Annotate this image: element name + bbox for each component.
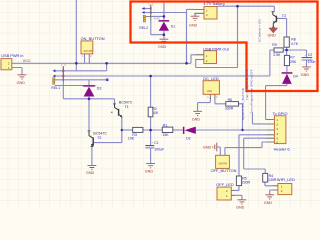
connector WIFI_LED xyxy=(278,184,292,195)
svg-text:GND: GND xyxy=(192,118,201,122)
pin stubs OFF_LED xyxy=(231,190,235,195)
svg-text:GND: GND xyxy=(145,170,154,174)
wire R2 top lead xyxy=(150,76,152,108)
ground battery xyxy=(191,16,200,20)
transistor T1 xyxy=(111,104,122,118)
wire REL2 arrow stub y8.5 xyxy=(144,8,151,10)
wire VCC rail from USB PWR in pin to riser xyxy=(12,62,191,64)
wire C1 top lead xyxy=(150,130,152,146)
wire D3 bottom stub to junction xyxy=(88,97,90,99)
connector OFF_BUTTON xyxy=(216,155,230,168)
wire battery top corner to feed xyxy=(218,5,238,7)
connector USB PWR in xyxy=(1,59,12,70)
wire R9 right lead to base node xyxy=(283,49,286,51)
diode D3 xyxy=(83,85,95,96)
svg-text:GND: GND xyxy=(268,34,277,38)
junction D3/T2 collector xyxy=(88,98,91,101)
wire riser x106.6 from VCC rail to arrow net xyxy=(106,63,108,71)
resistor R3 xyxy=(133,127,143,132)
transistor T2 xyxy=(88,131,94,147)
svg-text:100uF: 100uF xyxy=(154,148,164,152)
svg-text:10K: 10K xyxy=(128,136,135,140)
wire WIFI_LED pin2 to GND xyxy=(270,190,273,195)
svg-text:GND: GND xyxy=(86,171,95,175)
pin stubs USB PWR Out xyxy=(196,55,204,60)
wire GPIO pin5 with drop to R4 xyxy=(244,138,266,173)
svg-text:GND: GND xyxy=(301,73,310,77)
relay REL2 xyxy=(143,5,151,23)
ground OFF_LED xyxy=(238,200,247,204)
capacitor C1 xyxy=(145,146,154,148)
junction collector feed xyxy=(236,5,239,8)
wire D3 top stub xyxy=(88,80,90,85)
svg-text:330R: 330R xyxy=(225,106,234,110)
selection frame xyxy=(131,2,318,92)
svg-text:100n: 100n xyxy=(308,60,316,64)
connector DC_LED xyxy=(203,81,219,95)
wire T1 emitter branch to R3 xyxy=(122,129,133,131)
svg-text:signal to OFF_BUTTON: signal to OFF_BUTTON xyxy=(241,88,245,120)
connector 4.7V Battery xyxy=(204,7,217,20)
wire ON_BUTTON left pin xyxy=(84,54,86,63)
svg-text:R6: R6 xyxy=(228,98,233,102)
wire base node to C2 xyxy=(287,50,307,57)
wire USB PWR in pin1 to GND xyxy=(12,68,22,75)
pin stubs DC_LED xyxy=(210,94,215,99)
svg-text:10K: 10K xyxy=(152,111,159,115)
diode D2 xyxy=(183,127,196,134)
svg-text:GND: GND xyxy=(236,206,245,209)
wire DC_LED pin1 to GND xyxy=(198,98,211,111)
svg-text:OFF_LED: OFF_LED xyxy=(216,182,234,187)
wire REL1 pad stub y79.8 xyxy=(55,79,106,81)
connector To GPIO header xyxy=(274,116,286,144)
net arrow REL2 a xyxy=(142,7,145,10)
diode D1 xyxy=(159,20,170,31)
svg-text:OFF_BUTTON: OFF_BUTTON xyxy=(211,168,237,173)
svg-text:GND: GND xyxy=(17,81,26,85)
wire R7 top lead xyxy=(286,50,288,55)
resistor R4 xyxy=(263,173,268,182)
pin stub battery pin2 GND stem xyxy=(194,13,196,16)
ground T3 emitter (triangle) xyxy=(269,28,277,33)
transistor T3 xyxy=(271,12,277,28)
svg-text:USB PWR in: USB PWR in xyxy=(1,53,23,58)
resistor R7 xyxy=(284,55,289,65)
svg-text:D4: D4 xyxy=(293,74,298,78)
wire R4 bottom to WIFI_LED pin1 xyxy=(265,182,273,186)
connector USB PWR Out xyxy=(204,51,217,64)
ground sideways OFF_BUTTON xyxy=(213,143,217,152)
junction row/R2/C1 xyxy=(149,129,152,132)
ground T2 emitter xyxy=(88,165,97,169)
svg-text:REL1: REL1 xyxy=(51,86,60,90)
svg-text:Turn on signal to GPIO: Turn on signal to GPIO xyxy=(245,69,249,100)
svg-text:R1: R1 xyxy=(163,123,168,127)
svg-text:Header 6: Header 6 xyxy=(274,147,290,152)
ground C2 xyxy=(302,67,311,71)
wire C1 bottom lead to ground xyxy=(150,148,152,164)
wire D2 to GPIO pin3 xyxy=(196,129,266,131)
svg-text:T2: T2 xyxy=(97,136,101,140)
pin stubs battery xyxy=(195,9,205,13)
svg-text:C2: C2 xyxy=(308,53,313,57)
svg-text:2.5K: 2.5K xyxy=(273,53,281,57)
junction D1 bottom xyxy=(163,33,166,36)
wire R7 bottom to D4 xyxy=(286,66,288,73)
wire R1 to D2 xyxy=(173,129,183,131)
svg-text:4.7V Battery: 4.7V Battery xyxy=(203,1,224,6)
resistor R9 xyxy=(274,48,283,52)
svg-text:SW-PB: SW-PB xyxy=(83,49,92,53)
ground USB PWR in xyxy=(18,75,27,79)
net arrow REL1 b xyxy=(53,75,56,78)
ground D1 xyxy=(160,39,169,43)
svg-text:4148: 4148 xyxy=(154,16,160,20)
svg-text:GND: GND xyxy=(264,201,273,205)
wire T2 emitter to GND xyxy=(91,147,93,165)
wire feed to T3 collector xyxy=(238,6,275,12)
wire OFF_BUTTON left pin to sideways GND xyxy=(217,147,220,155)
ground WIFI_LED xyxy=(265,195,274,199)
resistor R2 xyxy=(148,107,153,117)
svg-text:ON_BUTTON: ON_BUTTON xyxy=(81,36,105,41)
wire T3 base to R8 xyxy=(278,18,287,37)
junction T1 emitter/row xyxy=(121,129,123,131)
svg-text:WIFI_LED: WIFI_LED xyxy=(277,177,295,182)
resistor R1 xyxy=(162,127,173,132)
svg-text:25K: 25K xyxy=(290,60,297,64)
wire REL2 bottom L to D1 bottom junction xyxy=(151,21,164,35)
svg-text:Turn off signal from GPIO to O: Turn off signal from GPIO to OFF xyxy=(250,69,254,113)
no-ERC cross REL2 pin1 xyxy=(150,8,152,10)
no-ERC cross REL1 pin1 xyxy=(62,70,64,72)
wire USB PWR Out pin2 loop up to collector feed xyxy=(196,6,238,67)
wire R2 bottom lead xyxy=(150,117,152,130)
diode D4 xyxy=(282,72,293,84)
junction R8/R9/R7 base node xyxy=(285,49,288,52)
svg-text:BC547C: BC547C xyxy=(119,101,133,105)
junction D1 top xyxy=(163,15,166,18)
wire D1 bottom to GND xyxy=(163,31,165,39)
resistor R5 xyxy=(236,176,241,186)
wire R6 right lead down to pin3 net xyxy=(239,104,243,130)
relay REL1 xyxy=(53,66,64,84)
connector ON_BUTTON xyxy=(81,41,93,54)
junction long net/R2 xyxy=(149,75,152,78)
junction VCC rail/battery riser xyxy=(185,62,188,65)
wire REL1 pad stub y85.5 to D3 bar xyxy=(55,85,83,87)
svg-text:GND: GND xyxy=(189,23,198,27)
junction pin3 net/R6 xyxy=(241,129,243,131)
wire R8 bottom to base node xyxy=(286,47,288,50)
wire long horizontal net y76 from REL1 to R9 xyxy=(55,75,270,77)
ground C1 xyxy=(146,164,155,168)
svg-text:SW-PB: SW-PB xyxy=(218,162,227,166)
wire REL2 pad stub to D1 junction xyxy=(151,15,164,17)
wire OFF_LED pin2 to GND xyxy=(236,195,242,200)
wire C2 bottom to GND xyxy=(306,60,308,67)
svg-text:230R: 230R xyxy=(242,181,251,185)
svg-text:R9: R9 xyxy=(272,43,277,47)
wire D1 axis from sheet top xyxy=(163,3,165,21)
wire R5 drop from pin4 net xyxy=(238,135,240,176)
pin tick D3 bar xyxy=(82,85,96,87)
wire DC_LED pin2 to R6 xyxy=(215,99,226,104)
svg-text:GND: GND xyxy=(158,45,167,49)
wire REL2 arrow net y12.5 to battery riser xyxy=(144,12,187,14)
connector OFF_LED xyxy=(217,187,231,200)
svg-text:15K: 15K xyxy=(162,133,169,137)
svg-text:D1: D1 xyxy=(171,24,176,28)
svg-text:To GPIO: To GPIO xyxy=(273,111,288,116)
wire T1 emitter down to T2 base xyxy=(93,118,121,143)
pin stubs GPIO header xyxy=(266,120,274,143)
wire ON_BUTTON right pin xyxy=(88,54,90,63)
net endpoint square REL1 stub xyxy=(106,79,109,82)
wire GPIO pin4 net from R5 corner xyxy=(239,134,266,136)
wire from sheet top down through VCC rail to arrow net xyxy=(75,0,77,71)
svg-text:T3: T3 xyxy=(282,14,286,18)
svg-text:USB PWR Out: USB PWR Out xyxy=(203,46,229,51)
wire R5 bottom to OFF_LED pin1 xyxy=(236,186,240,191)
svg-text:C1: C1 xyxy=(154,141,159,145)
svg-text:REL2: REL2 xyxy=(139,26,148,30)
svg-text:DC_LED: DC_LED xyxy=(203,76,219,81)
svg-text:GND: GND xyxy=(203,146,212,150)
wire row between R3 and R1 xyxy=(143,129,162,131)
resistor R8 xyxy=(284,37,289,47)
svg-text:LED: LED xyxy=(207,89,212,93)
wire REL1 edge down to T1 collector run xyxy=(63,66,114,103)
svg-text:VCC: VCC xyxy=(23,58,32,63)
net arrow REL2 b xyxy=(142,11,145,14)
resistor R6 xyxy=(226,102,239,107)
svg-text:D2: D2 xyxy=(186,137,191,141)
no-ERC cross REL1 pin2 xyxy=(62,75,64,77)
wire battery pin1 riser to VCC rail xyxy=(187,9,195,63)
wire D4 bottom to GPIO pin1 xyxy=(266,84,287,119)
svg-text:(I.Collector = 2A): (I.Collector = 2A) xyxy=(258,19,262,42)
no-ERC cross REL2 pin2 xyxy=(150,12,152,14)
ground DC_LED xyxy=(193,111,202,115)
wire R9 left lead riser xyxy=(270,50,274,76)
wire GPIO pin6 to OFF_BUTTON right pin xyxy=(225,142,266,155)
junction VCC/riser xyxy=(105,62,108,65)
wire REL1 arrow net y70.8 xyxy=(55,70,107,72)
wire USB PWR Out pin1 to VCC rail xyxy=(191,55,196,64)
capacitor C2 xyxy=(302,58,313,60)
wire T2 collector vertical xyxy=(88,99,90,131)
svg-text:T1: T1 xyxy=(125,105,129,109)
wire GPIO pin2 net label stub xyxy=(252,112,266,124)
svg-text:D3: D3 xyxy=(97,87,102,91)
pin stubs WIFI_LED xyxy=(273,186,278,190)
junction VCC/ON_BUTTON branch xyxy=(75,62,78,65)
svg-text:4.7K: 4.7K xyxy=(291,42,299,46)
net arrow REL1 a xyxy=(53,69,56,72)
svg-text:130R: 130R xyxy=(268,178,277,182)
